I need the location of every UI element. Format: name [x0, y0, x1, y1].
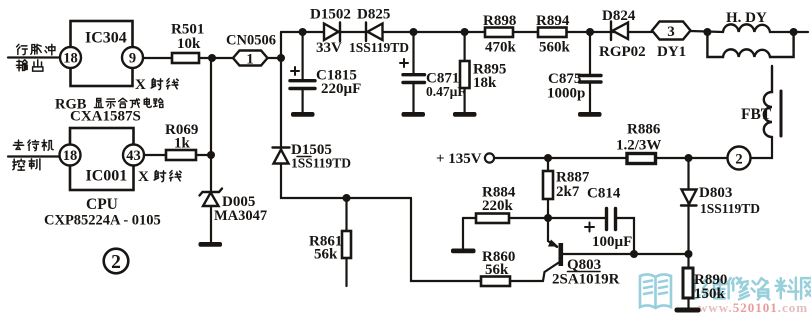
svg-text:FBT: FBT: [741, 106, 772, 123]
resistor R861: [342, 231, 351, 258]
svg-text:33V: 33V: [316, 40, 342, 56]
ground under C875: [578, 112, 602, 117]
resistor R890: [683, 268, 693, 298]
svg-text:R886: R886: [627, 122, 661, 138]
capacitor C814: [585, 209, 616, 232]
label CXP85224A-0105: [44, 213, 161, 229]
svg-text:RGP02: RGP02: [599, 44, 646, 60]
node label 输出: [16, 60, 43, 71]
capacitor C1815: [290, 67, 315, 89]
capacitor C871: [400, 59, 425, 83]
svg-text:2SA1019R: 2SA1019R: [552, 272, 620, 288]
svg-text:X: X: [138, 169, 149, 185]
label CN0506: [226, 33, 276, 49]
svg-text:10k: 10k: [177, 36, 201, 52]
ground for R884 divider: [451, 249, 476, 254]
label R501 / 10k: [171, 22, 204, 53]
DY1 pin number 3: [667, 24, 675, 40]
watermark text 电维修资料网: [683, 277, 811, 299]
resistor R501: [172, 53, 199, 63]
pin number 18 of IC001: [63, 148, 78, 164]
svg-text:IC304: IC304: [85, 30, 127, 47]
svg-text:RGB: RGB: [55, 97, 87, 113]
svg-text:1.2/3W: 1.2/3W: [616, 138, 661, 154]
resistor R887: [543, 171, 553, 199]
label R895 / 18k: [473, 62, 506, 92]
IC001 pin 18 circle: [60, 145, 81, 166]
label C871 / 0.47uF: [426, 71, 466, 100]
wire: drop x=411 from D1505 net down to R860 wire: [411, 198, 543, 281]
wire: circle 2 to FBT bottom corner: [751, 137, 773, 158]
resistor R898: [485, 28, 513, 38]
svg-text:R898: R898: [483, 13, 516, 29]
label +135V: [436, 151, 482, 167]
label R898 / 470k: [483, 13, 517, 56]
label R890 / 150k: [694, 272, 727, 302]
IC001 pin 43 circle: [123, 145, 144, 166]
resistor R884: [476, 214, 509, 224]
label FBT: [741, 106, 772, 123]
svg-text:100µF: 100µF: [592, 234, 632, 250]
label CXA1587S: [70, 109, 141, 125]
capacitor C875: [580, 76, 602, 83]
label H.DY: [726, 10, 767, 26]
resistor R894: [538, 28, 567, 38]
label D803 / 1SS119TD: [699, 185, 760, 216]
label D825 / 1SS119TD: [349, 7, 409, 56]
inductor H.DY top winding: [723, 24, 770, 32]
diode D803: [681, 190, 697, 206]
wire: input lead for 行脉冲/输出: [8, 56, 60, 58]
resistor R069: [166, 150, 196, 160]
wire: R861 branch from node down with open stub: [345, 198, 347, 286]
circled figure number 2: [104, 249, 129, 274]
label C875 / 1000p: [547, 71, 585, 102]
svg-text:R894: R894: [536, 13, 570, 29]
svg-text:DY1: DY1: [657, 44, 686, 60]
watermark book icon: [640, 274, 671, 308]
svg-text:43: 43: [126, 148, 141, 164]
wire: D803/R890 branch x=688.5 from rail through D803 to base wire and R890 to ground: [687, 158, 689, 309]
svg-text:CXP85224A - 0105: CXP85224A - 0105: [44, 213, 161, 229]
svg-text:H. DY: H. DY: [726, 10, 767, 26]
diode D005 (zener): [200, 189, 223, 207]
node label 控制: [13, 159, 40, 170]
node label X 射线 (IC304): [135, 77, 146, 93]
svg-text:1: 1: [246, 52, 254, 68]
transformer FBT winding: [764, 66, 772, 137]
diode D825: [366, 23, 383, 42]
svg-text:18: 18: [63, 51, 78, 67]
wire: pin 9 line y=58 through R501 to CN0506: [143, 57, 233, 59]
svg-text:MA3047: MA3047: [214, 208, 267, 224]
CN0506 pin number 1: [246, 52, 254, 68]
connector CN0506 pin 1 hexagon: [233, 51, 268, 66]
label DY1: [657, 44, 686, 60]
label D005 / MA3047: [214, 194, 267, 224]
resistor R895: [460, 61, 470, 88]
op-amp/IC U1 IC304 box: [71, 21, 133, 86]
svg-text:1k: 1k: [174, 136, 191, 152]
diode D1505: [273, 148, 290, 164]
svg-text:56k: 56k: [485, 262, 509, 278]
ground under R890: [675, 308, 701, 313]
svg-text:1000p: 1000p: [547, 86, 585, 102]
svg-text:D824: D824: [602, 8, 636, 24]
transistor Q803 base bar: [559, 243, 564, 266]
svg-text:D825: D825: [357, 7, 390, 23]
ground under C871: [402, 112, 426, 117]
label D1505 / 1SS119TD with overline: [291, 142, 351, 171]
resistor R886: [627, 154, 656, 164]
wire: pin 43 line y=155 through R069 to junction: [144, 154, 211, 156]
svg-text:2k7: 2k7: [556, 184, 580, 200]
svg-text:+ 135V: + 135V: [436, 151, 482, 167]
label R884 / 220k: [482, 185, 516, 215]
svg-text:150k: 150k: [694, 286, 726, 302]
svg-text:IC001: IC001: [86, 168, 128, 185]
pin number 9 of IC304: [129, 51, 136, 67]
label R886 / 1.2/3W: [616, 122, 661, 154]
svg-text:X: X: [135, 77, 146, 93]
label R861 / 56k: [309, 234, 342, 263]
svg-text:3: 3: [667, 24, 675, 40]
connector DY1 pin 3 hexagon: [652, 22, 691, 40]
label RGB 显示合成电路: [55, 97, 87, 113]
terminal circle 2 (to FBT): [728, 147, 751, 170]
svg-text:560k: 560k: [539, 40, 571, 56]
IC U2 IC001 CPU box: [70, 128, 134, 190]
wire: top rail from DY1 connector to H.DY left node: [690, 31, 723, 32]
node label 去待机 (input): [13, 140, 53, 151]
ground under D005: [199, 242, 223, 247]
svg-text:2: 2: [735, 152, 742, 168]
wire: R895 branch from rail to ground: [464, 32, 466, 113]
figure number 2 text: [111, 252, 121, 273]
label C814 / + / 100uF: [587, 186, 632, 251]
svg-text:1SS119TD: 1SS119TD: [700, 201, 760, 216]
svg-text:56k: 56k: [314, 247, 338, 263]
svg-text:18k: 18k: [473, 75, 497, 91]
wire: CN0506 output to riser junction: [267, 57, 281, 59]
label CPU: [86, 196, 118, 213]
wire: input lead for 去待机/控制: [8, 155, 60, 157]
pin number 18 of IC304: [63, 51, 78, 67]
terminal +135V open circle: [485, 153, 494, 162]
svg-text:2: 2: [111, 252, 121, 273]
label D824 / RGP02: [599, 8, 646, 60]
junction node dots: [207, 28, 798, 258]
svg-text:0.47µF: 0.47µF: [426, 84, 466, 99]
svg-text:CPU: CPU: [86, 196, 118, 213]
label R894 / 560k: [536, 13, 571, 56]
svg-text:9: 9: [129, 51, 136, 67]
inductor H.DY bottom winding and parallel loop: [707, 32, 793, 57]
svg-text:18: 18: [63, 148, 78, 164]
diode D824: [611, 22, 628, 41]
watermark url www.520101.com: [698, 300, 808, 315]
resistor R860: [481, 277, 510, 287]
svg-text:D803: D803: [699, 185, 732, 201]
IC304 pin 9 circle: [122, 47, 143, 68]
wire: riser x=281 from rail down through D1505 to corner, then to R861 corner: [281, 32, 411, 198]
wire: C814 right plate to corner down to base wire: [617, 218, 634, 254]
label Q803 underlined / 2SA1019R: [552, 257, 620, 288]
svg-text:220µF: 220µF: [321, 81, 361, 97]
transformer FBT core bar: [780, 91, 783, 136]
ground under C1815: [291, 112, 315, 117]
svg-text:1SS119TD: 1SS119TD: [291, 156, 351, 171]
svg-text:470k: 470k: [485, 40, 517, 56]
label IC001: [86, 168, 128, 185]
svg-text:www.520101.com: www.520101.com: [698, 300, 808, 315]
wire: divider rail y=218 from ground corner through R884 to C814: [463, 217, 605, 219]
wire: top rail from H.DY right node to right edge: [770, 31, 808, 33]
label IC304: [85, 30, 127, 47]
wire: Q803 base lead y=254 to D803/R890 node: [563, 253, 689, 255]
wire: vertical x=211 from R501 node down through D005 to ground: [210, 58, 212, 242]
diode D1502 (zener 33V): [324, 23, 340, 42]
transistor Q803 emitter lead with arrow: [548, 218, 559, 247]
wire: C1815 branch from rail to ground: [302, 32, 304, 113]
circle 2 number: [735, 152, 742, 168]
svg-text:CN0506: CN0506: [226, 33, 276, 49]
transistor Q803 collector lead: [543, 262, 560, 281]
wire: top main rail y=32 from CN0506 riser to DY1 connector: [281, 31, 652, 33]
label C1815 / 220uF: [316, 68, 361, 98]
IC304 pin 18 circle: [60, 47, 81, 68]
svg-text:D1502: D1502: [310, 7, 351, 23]
wire: C875 branch from rail to ground: [589, 32, 591, 113]
svg-text:C814: C814: [587, 186, 621, 202]
label R860 / 56k: [482, 249, 515, 278]
svg-text:220k: 220k: [482, 198, 514, 214]
label R887 / 2k7: [556, 170, 590, 201]
svg-text:1SS119TD: 1SS119TD: [349, 40, 409, 55]
wire: +135V rail y=158 to circle 2: [495, 157, 728, 159]
wire: ground drop of R884: [462, 218, 464, 249]
wire: C871 branch from rail to ground: [412, 32, 414, 113]
node label 行脉冲 (input): [17, 44, 55, 55]
node label X 射线 (IC001): [138, 169, 149, 185]
label R069 / 1k: [165, 122, 198, 152]
label D1502 / 33V: [310, 7, 351, 57]
pin number 43 of IC001: [126, 148, 141, 164]
ground under R895: [453, 112, 477, 117]
wire: R887 branch x=548 from rail to divider node: [547, 158, 549, 218]
